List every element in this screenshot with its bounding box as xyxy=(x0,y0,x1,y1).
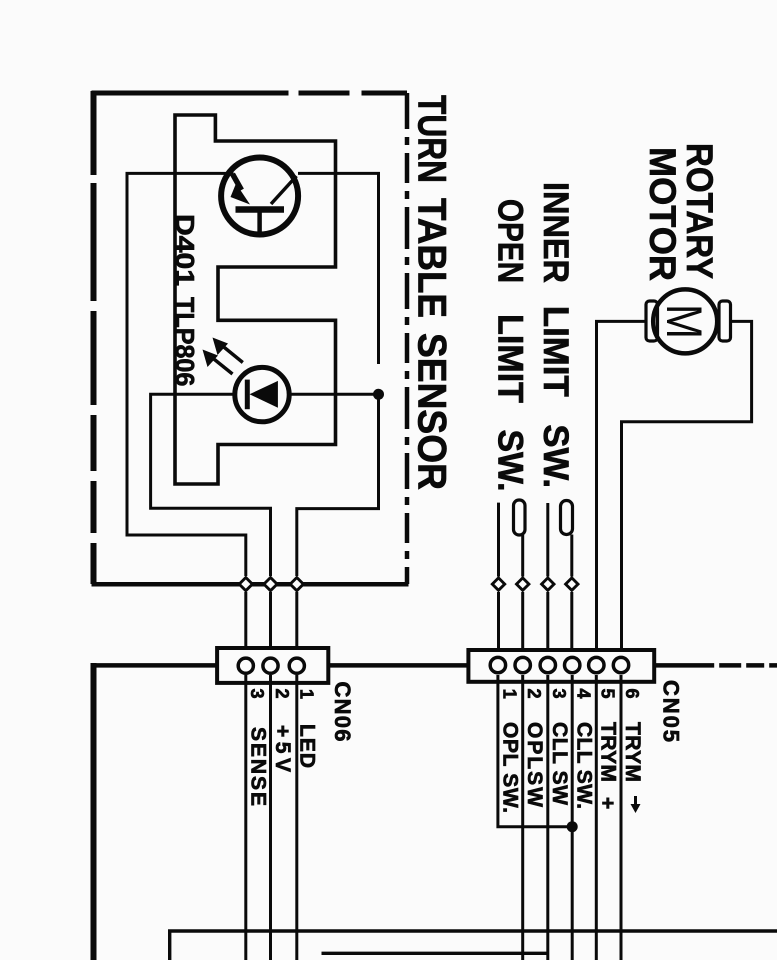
svg-text:LIMIT: LIMIT xyxy=(536,306,575,397)
LED cathode bar xyxy=(245,380,250,410)
svg-text:CN05: CN05 xyxy=(659,680,684,742)
phototransistor Q (D401) xyxy=(221,158,298,235)
feedthrough terminal on board edge, pin2 wire xyxy=(264,578,277,591)
svg-text:2: 2 xyxy=(524,689,544,699)
svg-text:TLP806: TLP806 xyxy=(170,297,200,386)
wire: CN06 pin2 down xyxy=(269,675,272,960)
main board bus line between CN06 and CN05 xyxy=(328,663,468,668)
svg-text:ROTARY: ROTARY xyxy=(679,143,720,279)
dashed board outline: turn table sensor, left edge xyxy=(91,91,97,584)
wire: phototransistor collector to SENSE xyxy=(127,173,246,576)
CN06 pin 2 xyxy=(263,658,278,673)
switch wire 2: OPLSW contact xyxy=(521,535,524,577)
svg-text:+: + xyxy=(596,797,619,809)
feedthrough terminal, switch wire 3 xyxy=(542,578,554,590)
LED light arrow 1 xyxy=(220,344,243,363)
wire: board edge to CN06 pin3 xyxy=(244,592,247,656)
main board bus line right of CN05 xyxy=(654,663,777,668)
svg-text:OPEN: OPEN xyxy=(491,199,530,283)
CN05 pin 5 xyxy=(589,657,604,672)
wire: switch 1 to CN05 pin1 xyxy=(497,592,500,658)
wire: CN05 pin6 down xyxy=(620,675,623,960)
wire: CN05 pin5 down xyxy=(595,675,598,960)
motor terminal plate right xyxy=(719,301,731,341)
svg-text:SENSE: SENSE xyxy=(247,727,270,806)
svg-text:OPLSW: OPLSW xyxy=(523,722,546,807)
svg-text:TRYM: TRYM xyxy=(621,722,644,782)
svg-text:SW.: SW. xyxy=(536,424,575,488)
LED triangle xyxy=(250,381,278,408)
connector CN05 body xyxy=(468,650,654,682)
feedthrough terminal on board edge, pin1 wire xyxy=(290,578,303,591)
wire: CN06 pin1 down xyxy=(295,675,298,960)
switch wire 3: CLLSW contact xyxy=(546,503,549,577)
CN06 pin 3 xyxy=(238,658,253,673)
wire: CN05 pin3 down xyxy=(546,675,549,960)
junction dot: LED anode / emitter / pin1 xyxy=(373,389,384,400)
switch wire 4: CLL SW contact xyxy=(570,535,573,577)
wire: LED cathode to +5V xyxy=(151,394,271,576)
wire: CN05 pin4 down xyxy=(571,675,574,960)
svg-text:+5V: +5V xyxy=(271,725,294,772)
feedthrough terminal, switch wire 4 xyxy=(566,578,578,590)
wire: motor right terminal to CN05 pin6 xyxy=(622,321,752,658)
label: TRYM minus polarity arrow xyxy=(631,796,641,813)
photo-interrupter package outline D401 (meander) xyxy=(175,115,336,484)
svg-text:3: 3 xyxy=(247,689,267,699)
wire: LED anode through junction xyxy=(288,393,379,396)
motor terminal plate left xyxy=(646,301,658,341)
lower board outline top edge xyxy=(170,931,777,960)
CN05 pin 1 xyxy=(490,657,505,672)
rotary motor M xyxy=(653,289,717,353)
svg-text:CN06: CN06 xyxy=(330,682,355,742)
dashed board outline: turn table sensor, right edge xyxy=(405,93,410,584)
svg-text:TURN: TURN xyxy=(410,95,454,183)
junction dot pin1/pin4 xyxy=(567,821,578,832)
svg-text:TABLE: TABLE xyxy=(410,198,454,318)
inner limit switch capsule xyxy=(561,501,573,535)
svg-text:CLL SW.: CLL SW. xyxy=(573,722,596,809)
wire: phototransistor emitter right segment xyxy=(298,173,379,364)
svg-text:1: 1 xyxy=(500,689,520,699)
svg-text:LIMIT: LIMIT xyxy=(491,314,530,403)
svg-text:3: 3 xyxy=(549,689,569,699)
open limit switch capsule xyxy=(514,500,526,535)
svg-text:SENSOR: SENSOR xyxy=(410,333,454,490)
svg-text:MOTOR: MOTOR xyxy=(642,147,683,281)
wire: switch 4 to CN05 pin4 xyxy=(570,592,573,658)
wire: board edge to CN06 pin1 xyxy=(295,592,298,656)
wire: junction down to CN06 pin1 xyxy=(297,394,379,576)
wire: CN05 pin1 down and right to pin4 wire xyxy=(498,675,572,827)
main board bus line left of CN06 xyxy=(94,663,218,668)
svg-text:4: 4 xyxy=(574,689,594,699)
main board left border xyxy=(91,663,97,960)
svg-text:LED: LED xyxy=(296,724,319,768)
CN06 pin 1 xyxy=(289,658,304,673)
svg-text:CLL SW: CLL SW xyxy=(548,722,571,805)
feedthrough terminal, switch wire 2 xyxy=(517,578,529,590)
svg-text:SW.: SW. xyxy=(491,430,530,492)
CN05 pin 6 xyxy=(613,657,628,672)
svg-text:1: 1 xyxy=(297,689,317,699)
feedthrough terminal, switch wire 1 xyxy=(492,578,504,590)
LED of photo-interrupter xyxy=(235,367,289,421)
wire: switch 2 to CN05 pin2 xyxy=(521,592,524,658)
svg-text:INNER: INNER xyxy=(536,182,575,283)
LED light arrow 2 xyxy=(210,356,233,375)
svg-text:TRYM: TRYM xyxy=(597,722,620,782)
wire: CN06 pin3 down xyxy=(244,675,247,960)
CN05 pin 4 xyxy=(565,657,580,672)
CN05 pin 3 xyxy=(540,657,555,672)
svg-text:D401: D401 xyxy=(170,214,200,286)
svg-text:OPL SW.: OPL SW. xyxy=(499,722,522,813)
wire: board edge to CN06 pin2 xyxy=(269,592,272,656)
svg-text:6: 6 xyxy=(622,689,642,699)
connector CN06 body xyxy=(217,648,328,683)
board outline: turn table sensor, bottom edge (solid) xyxy=(92,582,409,587)
CN05 pin 2 xyxy=(515,657,530,672)
wire: motor left terminal to CN05 pin5 xyxy=(597,321,648,658)
inner board outline second edge xyxy=(322,952,549,955)
feedthrough terminal on board edge, pin3 wire xyxy=(239,578,252,591)
svg-text:2: 2 xyxy=(272,689,292,699)
svg-text:M: M xyxy=(656,304,712,339)
svg-text:5: 5 xyxy=(598,689,618,699)
dashed board outline: turn table sensor, top edge xyxy=(92,91,408,96)
wire: CN05 pin2 down xyxy=(521,675,524,960)
wire: switch 3 to CN05 pin3 xyxy=(546,592,549,658)
switch wire 1: OPL SW contact xyxy=(497,503,500,577)
